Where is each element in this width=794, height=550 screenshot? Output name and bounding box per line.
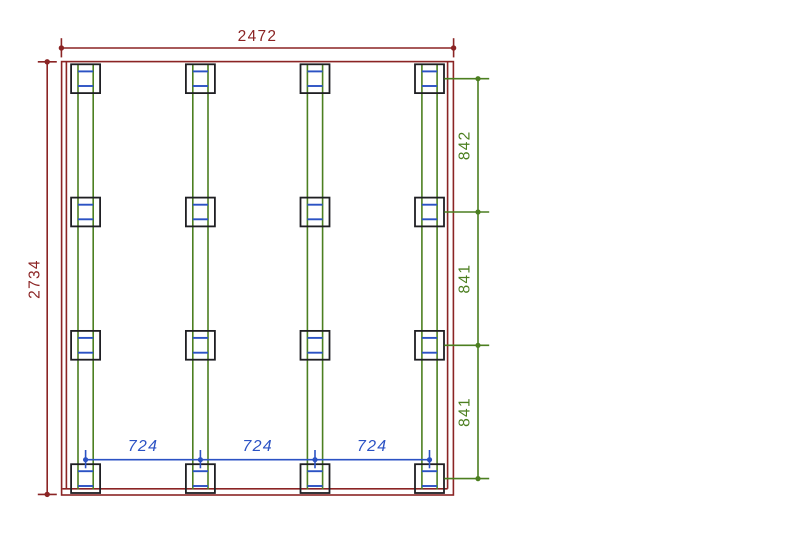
post R1C2 bbox=[186, 64, 215, 93]
green dim marker row 3 bbox=[444, 343, 489, 348]
green dim marker row 4 bbox=[444, 476, 489, 481]
bearer cleats in post R3C1 (blue) bbox=[78, 338, 93, 353]
post R1C3 bbox=[301, 64, 330, 93]
joist J2 (double green line) bbox=[193, 64, 208, 489]
bearer cleats in post R2C1 (blue) bbox=[78, 205, 93, 220]
dim 2472 right marker bbox=[451, 38, 456, 57]
dim text 724 #3 (blue, oblique) bbox=[357, 438, 388, 455]
svg-text:842: 842 bbox=[457, 130, 474, 160]
joist J4 (double green line) bbox=[422, 64, 437, 489]
bearer cleats in post R4C1 (blue) bbox=[78, 471, 93, 486]
svg-text:724: 724 bbox=[357, 438, 388, 455]
post R4C2 bbox=[186, 464, 215, 493]
bearer cleats in post R1C1 (blue) bbox=[78, 71, 93, 86]
bearer cleats in post R4C3 (blue) bbox=[307, 471, 322, 486]
post R3C3 bbox=[301, 331, 330, 360]
dim text 724 #1 (blue, oblique) bbox=[128, 438, 159, 455]
bearer cleats in post R4C2 (blue) bbox=[193, 471, 208, 486]
svg-text:724: 724 bbox=[128, 438, 159, 455]
svg-text:841: 841 bbox=[457, 264, 474, 294]
inner rim joist left bbox=[65, 62, 67, 489]
post R2C1 bbox=[71, 198, 100, 227]
post R2C4 bbox=[415, 198, 444, 227]
dim 2734 bottom marker bbox=[38, 492, 57, 497]
blue dim marker col 1 bbox=[83, 450, 88, 468]
bearer cleats in post R1C3 (blue) bbox=[307, 71, 322, 86]
green dim marker row 2 bbox=[444, 209, 489, 214]
dim text 724 #2 (blue, oblique) bbox=[242, 438, 273, 455]
bearer cleats in post R1C2 (blue) bbox=[193, 71, 208, 86]
svg-text:2472: 2472 bbox=[238, 28, 278, 45]
svg-text:724: 724 bbox=[242, 438, 273, 455]
blue dim marker col 4 bbox=[427, 450, 432, 468]
bearer cleats in post R4C4 (blue) bbox=[422, 471, 437, 486]
inner rim joist right bbox=[447, 62, 449, 489]
bearer cleats in post R3C2 (blue) bbox=[193, 338, 208, 353]
dimension line 2472 (top, red) bbox=[61, 47, 453, 49]
inner rim bottom bbox=[62, 488, 447, 490]
joist J3 (double green line) bbox=[307, 64, 322, 489]
post R2C2 bbox=[186, 198, 215, 227]
dim text 841 (rotated, green) bbox=[457, 397, 474, 427]
joist J1 (double green line) bbox=[78, 64, 93, 489]
post R2C3 bbox=[301, 198, 330, 227]
dim 2472 left marker bbox=[59, 38, 64, 57]
bearer cleats in post R3C4 (blue) bbox=[422, 338, 437, 353]
dim text 2734 (rotated) bbox=[27, 259, 44, 299]
dimension line 2734 (left, red) bbox=[46, 62, 48, 495]
post R3C2 bbox=[186, 331, 215, 360]
post R1C1 bbox=[71, 64, 100, 93]
dim text 841 (rotated, green) bbox=[457, 264, 474, 294]
post R3C1 bbox=[71, 331, 100, 360]
svg-text:2734: 2734 bbox=[27, 259, 44, 299]
post R4C1 bbox=[71, 464, 100, 493]
dimension chain line (bottom, blue) bbox=[86, 459, 430, 461]
blue dim marker col 3 bbox=[312, 450, 317, 468]
bearer cleats in post R3C3 (blue) bbox=[307, 338, 322, 353]
svg-text:841: 841 bbox=[457, 397, 474, 427]
dim text 2472 bbox=[238, 28, 278, 45]
post R3C4 bbox=[415, 331, 444, 360]
post R4C4 bbox=[415, 464, 444, 493]
dim 2734 top marker bbox=[38, 59, 57, 64]
post R1C4 bbox=[415, 64, 444, 93]
outer frame rectangle bbox=[62, 62, 454, 495]
bearer cleats in post R2C4 (blue) bbox=[422, 205, 437, 220]
bearer cleats in post R2C2 (blue) bbox=[193, 205, 208, 220]
dim text 842 (rotated, green) bbox=[457, 130, 474, 160]
bearer cleats in post R2C3 (blue) bbox=[307, 205, 322, 220]
green dim marker row 1 bbox=[444, 76, 489, 81]
post R4C3 bbox=[301, 464, 330, 493]
dimension chain line (right, green) bbox=[477, 79, 479, 479]
bearer cleats in post R1C4 (blue) bbox=[422, 71, 437, 86]
blue dim marker col 2 bbox=[198, 450, 203, 468]
